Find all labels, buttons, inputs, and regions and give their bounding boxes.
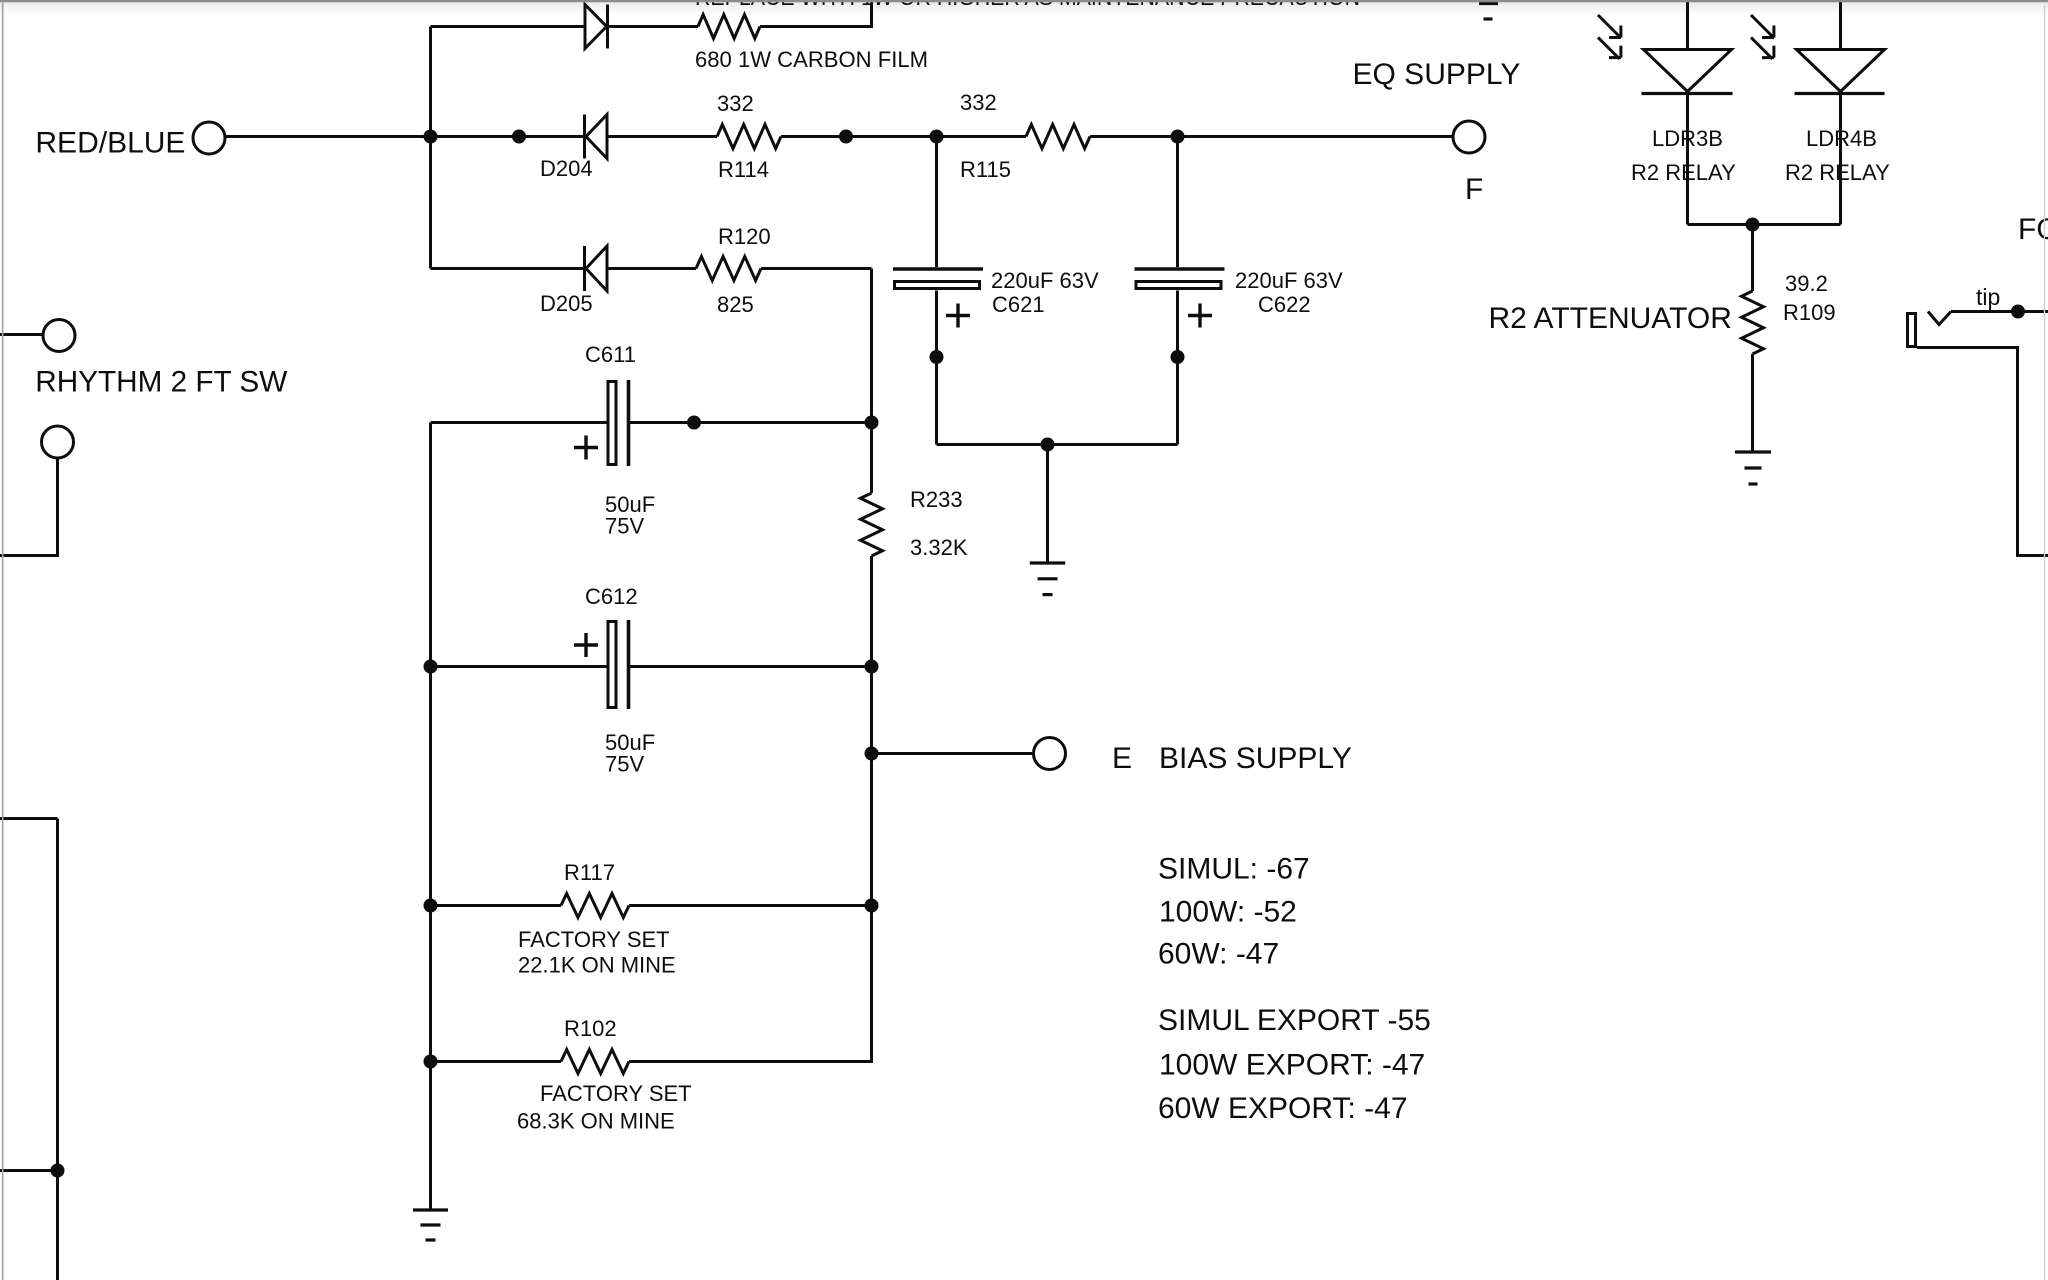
wire jack sleeve to edge (L-shape): [1917, 348, 2048, 556]
ground (top, partially cut off): [1479, 4, 1498, 20]
svg-text:E: E: [1112, 742, 1132, 775]
svg-text:R115: R115: [960, 157, 1011, 182]
wire bottom rail C621-C622: [937, 443, 1178, 446]
resistor R115: [1026, 125, 1090, 149]
junction C612 row at left bus: [424, 660, 438, 674]
svg-text:C611: C611: [585, 342, 636, 367]
wire LDR3B anode from top edge: [1686, 0, 1689, 49]
svg-text:60W EXPORT: -47: 60W EXPORT: -47: [1158, 1092, 1408, 1125]
svg-text:tip: tip: [1976, 284, 2000, 310]
wire top row: resistor 680 to note pointer, up to note: [760, 2, 872, 27]
plus sign (C622 polarity): [1188, 304, 1212, 328]
svg-text:22.1K ON MINE: 22.1K ON MINE: [518, 953, 676, 978]
svg-text:75V: 75V: [605, 752, 644, 777]
svg-text:R2 ATTENUATOR: R2 ATTENUATOR: [1489, 302, 1732, 335]
svg-text:R117: R117: [564, 860, 615, 885]
wire LED cathodes join rail: [1688, 223, 1841, 226]
wire C622 branch: main row down to C622: [1176, 137, 1179, 268]
svg-text:RHYTHM 2 FT SW: RHYTHM 2 FT SW: [35, 366, 288, 399]
svg-text:332: 332: [717, 91, 754, 116]
svg-text:R233: R233: [910, 487, 963, 512]
junction C622 branch mid: [1171, 350, 1185, 364]
svg-text:680 1W CARBON FILM: 680 1W CARBON FILM: [695, 47, 928, 72]
svg-text:C621: C621: [992, 292, 1045, 317]
light arrows (LDR3B): [1598, 15, 1621, 59]
wire left edge stub at junction: [0, 1169, 58, 1172]
svg-text:3.32K: 3.32K: [910, 535, 968, 560]
wire bias bus vertical lower (R233 bottom to R102 corner): [870, 556, 873, 1063]
wire C621 branch: main row down to C621: [935, 137, 938, 268]
wire E bias tap: bias bus to terminal E: [872, 752, 1034, 755]
resistor R109: [1742, 291, 1764, 354]
wire C611 row: C611 to bias bus: [630, 421, 872, 424]
wire main row: R114 to R115: [781, 135, 1026, 138]
light arrows (LDR4B): [1751, 15, 1774, 59]
ground (R109): [1735, 452, 1771, 484]
page right border line: [2044, 5, 2045, 1280]
plus sign (C621 polarity): [946, 304, 970, 328]
svg-text:75V: 75V: [605, 514, 644, 539]
svg-text:LDR4B: LDR4B: [1806, 126, 1877, 151]
wire RHYTHM lower terminal drop: [0, 459, 58, 556]
diode (top row, pointing right): [585, 5, 608, 49]
svg-text:FACTORY SET: FACTORY SET: [540, 1081, 692, 1106]
junction R102 row at left bus: [424, 1055, 438, 1069]
LED LDR3B (pointing down): [1642, 50, 1733, 94]
svg-text:39.2: 39.2: [1785, 271, 1828, 296]
diode D204 (pointing left): [585, 115, 608, 159]
wire left bus vertical (C611 row to ground): [429, 423, 432, 1211]
wire bias bus vertical upper (R120 corner to R233 top): [870, 269, 873, 494]
resistor R117: [561, 894, 629, 918]
svg-text:F: F: [1465, 173, 1483, 206]
junction main row at x=519: [512, 130, 526, 144]
svg-text:RED/BLUE: RED/BLUE: [35, 127, 185, 160]
wire main row: RED/BLUE terminal to diode D204: [224, 135, 584, 138]
junction left edge vertical: [51, 1164, 65, 1178]
page top border gradient: [0, 2, 2048, 15]
wire top row: bus to top diode anode: [431, 25, 586, 28]
wire top row: diode cathode to resistor 680: [609, 25, 698, 28]
resistor 680 1W: [698, 15, 760, 39]
wire R117 row: left bus to R117: [431, 904, 562, 907]
terminal RED/BLUE: [193, 122, 225, 154]
svg-text:FACTORY SET: FACTORY SET: [518, 927, 670, 952]
svg-text:EQ SUPPLY: EQ SUPPLY: [1353, 58, 1521, 91]
capacitor C622 (polarized): [1135, 269, 1225, 289]
wire C612 row: C612 to bias bus: [630, 665, 872, 668]
svg-text:220uF 63V: 220uF 63V: [1235, 268, 1343, 293]
junction tip wire: [2011, 305, 2025, 319]
wire main row: R115 to EQ SUPPLY terminal: [1090, 135, 1453, 138]
junction bias bus at E tap: [865, 747, 879, 761]
junction C612 row at bias bus: [865, 660, 879, 674]
plus sign (C611 polarity): [574, 436, 598, 460]
svg-text:R109: R109: [1783, 300, 1836, 325]
junction main row at x=846: [839, 130, 853, 144]
svg-text:100W EXPORT: -47: 100W EXPORT: -47: [1159, 1049, 1425, 1082]
junction main row at C622 tap: [1171, 130, 1185, 144]
wire C611 row: left bus corner to C611 plate: [431, 421, 607, 424]
terminal F (EQ SUPPLY): [1453, 121, 1485, 153]
resistor R233: [861, 493, 883, 556]
wire C621 branch: C621 to bottom rail: [935, 291, 938, 445]
wire bottom rail to ground: [1046, 445, 1049, 563]
svg-text:C612: C612: [585, 584, 638, 609]
junction bottom rail center: [1041, 438, 1055, 452]
svg-text:220uF 63V: 220uF 63V: [991, 268, 1099, 293]
wire LED rail down to R109: [1751, 225, 1754, 292]
wire LDR4B cathode down: [1839, 95, 1842, 225]
diode D205 (pointing left): [585, 246, 608, 291]
wire R102 row: R102 to bias bus corner: [629, 1060, 872, 1063]
wire main row: D204 to R114: [607, 135, 717, 138]
svg-text:FOOT SW: FOOT SW: [2018, 213, 2048, 246]
junction R117 row at bias bus: [865, 899, 879, 913]
svg-text:D204: D204: [540, 156, 593, 181]
svg-text:68.3K ON MINE: 68.3K ON MINE: [517, 1109, 675, 1134]
svg-text:R2 RELAY: R2 RELAY: [1785, 160, 1890, 185]
svg-text:R102: R102: [564, 1016, 617, 1041]
ground (left bus): [413, 1210, 448, 1240]
page left border line: [2, 2, 4, 1280]
svg-text:BIAS SUPPLY: BIAS SUPPLY: [1159, 742, 1352, 775]
plus sign (C612 polarity): [574, 633, 598, 657]
wire left edge vertical: [56, 819, 59, 1280]
svg-text:825: 825: [717, 292, 754, 317]
svg-text:R2 RELAY: R2 RELAY: [1631, 160, 1736, 185]
capacitor C612 (polarized): [608, 620, 629, 709]
svg-text:R114: R114: [718, 157, 769, 182]
junction C621 branch mid: [930, 350, 944, 364]
wire LDR4B anode from top edge: [1839, 0, 1842, 49]
wire C612 row: left bus to C612 plate: [431, 665, 607, 668]
LED LDR4B (pointing down): [1795, 50, 1885, 94]
svg-text:R120: R120: [718, 224, 771, 249]
wire LDR3B cathode down: [1686, 95, 1689, 225]
wire R109 to ground: [1751, 354, 1754, 451]
resistor R114: [717, 125, 781, 149]
junction LED rail: [1746, 218, 1760, 232]
jack sleeve (FOOT SW): [1908, 314, 1916, 347]
junction main row at C621 tap: [930, 130, 944, 144]
junction C611 row at x=694: [687, 416, 701, 430]
wire D205 row: bus to diode D205: [431, 267, 585, 270]
capacitor C611 (polarized): [608, 380, 629, 466]
svg-text:D205: D205: [540, 291, 593, 316]
ground (filter caps): [1030, 563, 1065, 595]
resistor R102: [561, 1050, 629, 1074]
wire C622 branch: C622 to bottom rail: [1176, 291, 1179, 445]
wire stub to RHYTHM terminal 1: [0, 333, 43, 336]
svg-text:60W: -47: 60W: -47: [1158, 938, 1279, 971]
wire D205 row: R120 to bias bus corner: [761, 267, 872, 270]
capacitor C621 (polarized): [893, 269, 983, 289]
junction C611 row at bias bus: [865, 416, 879, 430]
jack tip contact: [1928, 312, 1951, 325]
terminal RHYTHM 2 FT SW (lower): [42, 426, 74, 458]
svg-text:SIMUL: -67: SIMUL: -67: [1158, 853, 1310, 886]
terminal RHYTHM 2 FT SW (upper): [43, 320, 75, 352]
svg-text:332: 332: [960, 90, 997, 115]
page top border line: [0, 0, 2048, 2]
wire left edge stub upper corner: [0, 817, 58, 820]
wire R102 row: left bus to R102: [431, 1060, 562, 1063]
svg-text:SIMUL EXPORT -55: SIMUL EXPORT -55: [1158, 1004, 1431, 1037]
svg-text:C622: C622: [1258, 292, 1311, 317]
resistor R120: [696, 257, 761, 281]
junction main row at bus x=430: [424, 130, 438, 144]
wire left vertical bus (x=430) top row to D205 row: [429, 27, 432, 269]
wire R117 row: R117 to bias bus: [629, 904, 872, 907]
wire D205 row: D205 to R120: [607, 267, 696, 270]
wire tip contact to edge: [1951, 310, 2048, 313]
junction R117 row at left bus: [424, 899, 438, 913]
terminal E (BIAS SUPPLY): [1034, 738, 1066, 770]
svg-text:100W: -52: 100W: -52: [1159, 896, 1297, 929]
